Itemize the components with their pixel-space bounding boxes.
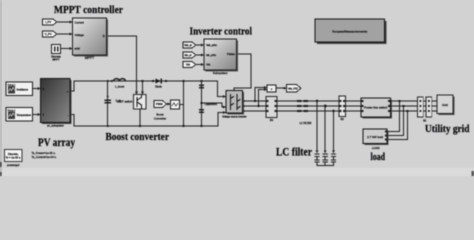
svg-text:LC filter: LC filter [276, 147, 312, 159]
svg-text:B3: B3 [270, 118, 274, 122]
svg-text:Vdc: Vdc [206, 63, 211, 67]
svg-text:LC FILTER: LC FILTER [300, 122, 312, 125]
svg-text:Scopes/Measurements: Scopes/Measurements [332, 29, 368, 33]
svg-text:B2: B2 [341, 117, 345, 121]
svg-text:Vab_VSC: Vab_VSC [288, 88, 299, 91]
svg-text:Inverter control: Inverter control [190, 25, 253, 37]
svg-text:IGBT switch: IGBT switch [117, 99, 133, 103]
svg-text:MPPT: MPPT [85, 56, 94, 60]
svg-text:B1: B1 [423, 118, 427, 122]
svg-text:Voltage: Voltage [75, 33, 85, 37]
svg-text:Capacitors: Capacitors [205, 102, 218, 106]
svg-text:+: + [67, 90, 69, 94]
svg-text:Utility grid: Utility grid [425, 123, 470, 135]
svg-text:Current: Current [75, 21, 85, 25]
svg-text:Diode: Diode [155, 85, 162, 88]
svg-text:I_PV: I_PV [45, 20, 51, 24]
svg-text:PWM: PWM [156, 102, 162, 106]
svg-text:Ts = 1e-05 s.: Ts = 1e-05 s. [5, 156, 21, 160]
svg-text:Converter: Converter [154, 116, 166, 120]
svg-text:Boost converter: Boost converter [106, 131, 170, 143]
svg-text:LOAD: LOAD [372, 146, 380, 150]
svg-text:2.7 kW load: 2.7 kW load [367, 135, 383, 139]
svg-text:MPPT: MPPT [52, 57, 60, 61]
svg-text:Irradiance: Irradiance [17, 87, 29, 91]
svg-text:Pulses: Pulses [227, 52, 235, 56]
svg-text:-: - [68, 114, 69, 118]
svg-text:Ir: Ir [43, 87, 45, 91]
svg-text:PV array: PV array [38, 135, 75, 149]
svg-text:Iab_prim: Iab_prim [206, 53, 216, 57]
svg-text:Ts_Control=1e-04 s.: Ts_Control=1e-04 s. [32, 155, 57, 159]
svg-text:Iab_pr: Iab_pr [184, 54, 191, 57]
svg-text:L_boost: L_boost [115, 85, 124, 88]
svg-text:Subsystem: Subsystem [213, 71, 228, 75]
svg-text:Power line switch: Power line switch [364, 106, 388, 110]
svg-text:enbl: enbl [75, 47, 81, 51]
svg-text:Grid: Grid [442, 103, 448, 107]
svg-text:Vab_pr: Vab_pr [184, 44, 192, 47]
svg-text:V_PV: V_PV [45, 32, 52, 36]
svg-text:T: T [43, 113, 45, 117]
svg-text:Temperature: Temperature [17, 113, 32, 117]
svg-text:pv_subsystem: pv_subsystem [47, 124, 64, 128]
svg-text:Discrete,: Discrete, [8, 152, 19, 156]
svg-text:load: load [371, 151, 386, 163]
svg-text:D: D [103, 34, 105, 38]
svg-text:powergui: powergui [7, 163, 20, 167]
svg-text:MPPT controller: MPPT controller [54, 4, 123, 16]
svg-text:Voltage source inverter: Voltage source inverter [222, 116, 247, 119]
svg-text:Vdc: Vdc [186, 64, 191, 67]
svg-text:Vab_prim: Vab_prim [206, 43, 217, 47]
